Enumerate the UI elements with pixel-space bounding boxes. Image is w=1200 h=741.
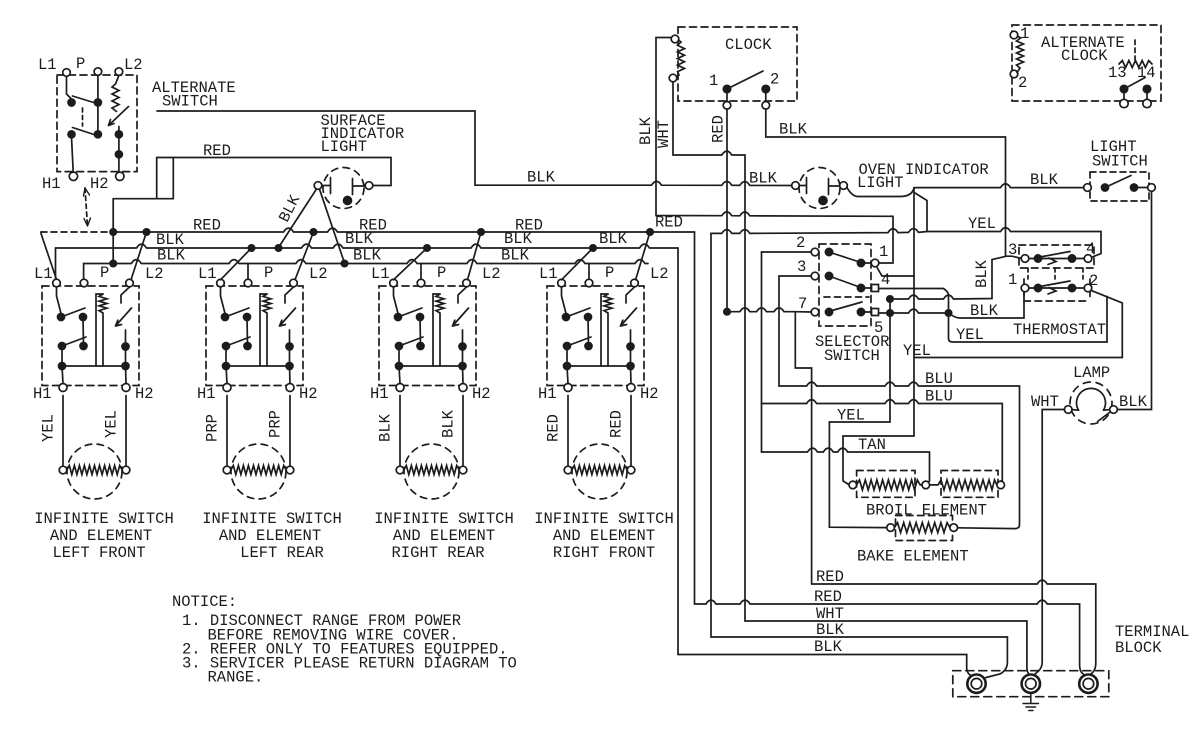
svg-text:RED: RED [814, 588, 842, 606]
svg-text:BLK: BLK [816, 621, 845, 639]
thermostat row 1-2 terminals and dots [1021, 284, 1029, 292]
svg-text:BLOCK: BLOCK [1115, 639, 1162, 657]
bake terminals [887, 524, 895, 532]
wire thermostat pin2 diagonal [914, 290, 1122, 357]
svg-text:RED: RED [608, 410, 626, 438]
svg-text:L2: L2 [124, 56, 143, 74]
lamp filament stub [1098, 413, 1110, 422]
bake zigzag [894, 523, 950, 533]
svg-text:BLK: BLK [599, 230, 628, 248]
dashed arrow below alternate switch [85, 188, 88, 226]
ladder verticals below RED wire [113, 158, 173, 264]
svg-text:RED: RED [193, 217, 221, 235]
alternate switch L2 coil [112, 75, 119, 111]
broil terminals [849, 481, 857, 489]
svg-text:L2: L2 [145, 265, 164, 283]
svg-text:YEL: YEL [968, 215, 996, 233]
svg-text:BLK: BLK [970, 302, 999, 320]
svg-text:BLK: BLK [353, 247, 382, 265]
svg-text:P: P [76, 55, 85, 73]
svg-text:RED: RED [545, 414, 563, 442]
svg-text:CLOCK: CLOCK [1061, 47, 1108, 65]
element 2 (left rear) [223, 396, 294, 500]
svg-text:H2: H2 [90, 175, 109, 193]
svg-text:BLK: BLK [440, 409, 458, 438]
thermostat dashed linkage [1028, 268, 1083, 279]
svg-text:YEL: YEL [103, 410, 121, 438]
light switch terminals [1084, 184, 1092, 192]
svg-text:1: 1 [879, 243, 888, 261]
svg-text:P: P [437, 264, 446, 282]
svg-text:BLK: BLK [527, 169, 556, 187]
wire light switch to lamp BLK [1117, 191, 1151, 409]
wire clock coil top BLK down to selector pin1 [656, 38, 893, 264]
wire H2-area to surface light (RED) [157, 158, 391, 186]
alternate clock contacts 13 14 [1134, 40, 1136, 60]
selector pin terminals [811, 248, 819, 256]
svg-text:BLK: BLK [814, 638, 843, 656]
broil dashed box right [941, 471, 998, 498]
infinite switch 1 (left front) [42, 279, 139, 391]
svg-text:LIGHT: LIGHT [321, 138, 368, 156]
oven light terminals [792, 182, 800, 190]
svg-text:H1: H1 [370, 385, 389, 403]
alternate clock box [1012, 25, 1161, 101]
light switch arm [1105, 176, 1131, 188]
svg-text:H2: H2 [135, 385, 154, 403]
svg-text:H1: H1 [197, 385, 216, 403]
svg-text:L2: L2 [309, 265, 328, 283]
clock coil [671, 35, 679, 43]
svg-text:H1: H1 [42, 175, 61, 193]
selector inner dashed divider [824, 296, 869, 298]
surface light diagonal to BLK bus2 [320, 189, 345, 263]
svg-text:1: 1 [1020, 25, 1029, 43]
clock switch arm [727, 71, 763, 89]
thermostat row 1-2 arm [1040, 281, 1070, 287]
alternate clock coil [1010, 31, 1018, 39]
svg-text:L1: L1 [34, 265, 53, 283]
svg-text:H2: H2 [299, 385, 318, 403]
wire selector pin1 link [877, 267, 915, 277]
svg-text:BLK: BLK [345, 230, 374, 248]
svg-text:YEL: YEL [40, 414, 58, 442]
svg-text:YEL: YEL [837, 407, 865, 425]
wire thermostat pin3 branch (BLK) [890, 256, 1007, 299]
wire YEL node horizontal (top of x711) [711, 229, 927, 234]
surface light diagonal to BLK bus1 [279, 189, 317, 248]
clock pin terminals [723, 102, 731, 110]
svg-text:BLK: BLK [501, 247, 530, 265]
svg-text:WHT: WHT [1031, 393, 1059, 411]
svg-text:BLU: BLU [925, 370, 953, 388]
infinite switch 1 L2 diagonal [131, 232, 147, 280]
wire clock coil bottom WHT [673, 82, 745, 621]
svg-text:2: 2 [770, 71, 779, 89]
svg-text:RED: RED [710, 115, 728, 143]
svg-text:2: 2 [796, 234, 805, 252]
BLK bus2 dots [110, 260, 116, 266]
svg-text:L1: L1 [539, 265, 558, 283]
svg-text:TAN: TAN [858, 436, 886, 454]
BLK bus1 junction dots [248, 245, 254, 251]
alternate switch terminal P [94, 68, 102, 76]
alternate switch terminal L1 [63, 69, 71, 77]
svg-text:RED: RED [816, 568, 844, 586]
svg-text:INFINITE SWITCH: INFINITE SWITCH [534, 510, 674, 528]
selector contact dots [825, 248, 832, 255]
wire selector pin7 riser to RED bus [795, 312, 811, 584]
infinite switch 3 feed diagonals [394, 248, 428, 280]
svg-text:BLK: BLK [637, 116, 655, 145]
wire RED bus1 (selector pin7 node) [812, 580, 1096, 674]
lamp terminals [1064, 406, 1072, 414]
svg-text:1: 1 [1008, 271, 1017, 289]
alternate switch arm 1 [73, 96, 99, 104]
svg-text:13: 13 [1108, 64, 1127, 82]
surface light lamp bars [322, 178, 365, 195]
infinite switch 3 (right rear) [379, 279, 476, 391]
svg-text:BROIL ELEMENT: BROIL ELEMENT [866, 502, 987, 520]
svg-text:LIGHT: LIGHT [857, 174, 904, 192]
svg-text:L1: L1 [38, 56, 57, 74]
svg-text:SWITCH: SWITCH [162, 93, 218, 111]
alternate switch linkage dashes [82, 108, 84, 126]
svg-text:BLK: BLK [749, 170, 778, 188]
wire RED bus2 (L2 bus) [695, 232, 1085, 675]
svg-text:P: P [605, 264, 614, 282]
wire WHT bus [745, 621, 1031, 676]
wire clock pin2 BLK right and down [766, 109, 1006, 256]
svg-text:BLK: BLK [157, 247, 186, 265]
alternate switch H1 column [72, 137, 74, 172]
svg-text:YEL: YEL [956, 326, 984, 344]
terminal block dashed box [953, 671, 1109, 697]
clock box [678, 27, 797, 101]
alternate switch box [57, 75, 137, 172]
wire selector pin3 feed [779, 276, 811, 386]
thermostat row 3-4 arm [1040, 252, 1070, 258]
infinite switch 2 (left rear) [206, 279, 303, 391]
junction dot clock pin1 branch [724, 309, 730, 315]
svg-text:NOTICE:: NOTICE: [172, 593, 237, 611]
terminal block lug right [1079, 675, 1097, 693]
svg-text:P: P [100, 264, 109, 282]
wire L1 trunk top [157, 111, 792, 186]
svg-text:AND ELEMENT: AND ELEMENT [219, 527, 321, 545]
RED bus solid [113, 228, 694, 232]
wire clock pin1 RED down [727, 109, 811, 312]
svg-text:14: 14 [1137, 64, 1156, 82]
svg-text:INFINITE SWITCH: INFINITE SWITCH [202, 510, 342, 528]
BLK bus 2 [84, 260, 648, 279]
svg-text:2: 2 [1018, 74, 1027, 92]
wire thermostat pin3 from tee [1007, 256, 1022, 258]
light switch box [1090, 172, 1149, 201]
node dot x948 [945, 310, 951, 316]
svg-text:RED: RED [203, 142, 231, 160]
thermostat row 3-4 terminals and dots [1021, 255, 1029, 263]
surface indicator light dashed circle [323, 168, 364, 209]
svg-text:L1: L1 [198, 265, 217, 283]
svg-text:BLU: BLU [925, 388, 953, 406]
svg-text:7: 7 [798, 295, 807, 313]
alternate switch L2 column lower [118, 127, 120, 173]
alternate switch terminal L2 [115, 68, 123, 76]
element 1 (left front) [59, 396, 130, 500]
selector arms [829, 252, 860, 262]
selector internal links [829, 252, 872, 312]
svg-text:H1: H1 [33, 385, 52, 403]
svg-text:L1: L1 [371, 265, 390, 283]
wire thermostat pin1 (BLK) [949, 292, 1025, 318]
wire selector pin2 feed [762, 252, 812, 452]
svg-text:WHT: WHT [655, 120, 673, 148]
bake dashed box [896, 516, 953, 541]
svg-text:3: 3 [797, 258, 806, 276]
element 3 (right rear) [396, 396, 467, 500]
svg-text:H1: H1 [538, 385, 557, 403]
wire selector pin4 to thermostat node [879, 289, 1107, 343]
wire BLU2: selector pin2 node to broil right [762, 400, 1003, 481]
surface light terminals [314, 182, 322, 190]
alternate switch contact dots [68, 99, 75, 106]
wire BLK bus2 (bus1 node) [678, 248, 973, 677]
wire oven light output junction [847, 187, 914, 196]
oven light dot [819, 197, 827, 205]
svg-text:BAKE ELEMENT: BAKE ELEMENT [857, 548, 969, 566]
thermostat dashed box row 1-2 [1024, 279, 1090, 301]
pin5 node dots [887, 296, 893, 302]
svg-text:YEL: YEL [903, 342, 931, 360]
svg-text:BLK: BLK [779, 121, 808, 139]
svg-text:LEFT FRONT: LEFT FRONT [52, 544, 145, 562]
alternate switch terminal H1 [69, 172, 77, 180]
svg-text:RIGHT REAR: RIGHT REAR [391, 544, 484, 562]
svg-text:CLOCK: CLOCK [725, 36, 772, 54]
svg-text:BLK: BLK [1030, 171, 1059, 189]
alternate switch L1 internal stub [67, 77, 72, 100]
svg-text:RIGHT FRONT: RIGHT FRONT [553, 544, 655, 562]
wire pin5 node up branch [889, 299, 891, 313]
svg-text:SWITCH: SWITCH [824, 347, 880, 365]
svg-text:BLK: BLK [1119, 393, 1148, 411]
svg-text:AND ELEMENT: AND ELEMENT [50, 527, 152, 545]
wire lamp WHT down to terminal block [1035, 410, 1064, 675]
infinite switch 4 feed diagonals [562, 248, 594, 280]
svg-text:1: 1 [709, 72, 718, 90]
svg-text:LEFT REAR: LEFT REAR [240, 544, 324, 562]
svg-text:4: 4 [881, 271, 890, 289]
element 4 (right front) [564, 396, 635, 500]
wire oven junction down to broil path [843, 188, 914, 485]
broil zigzag right [930, 480, 997, 490]
svg-text:BLK: BLK [377, 413, 395, 442]
svg-text:RANGE.: RANGE. [208, 669, 264, 687]
svg-text:SWITCH: SWITCH [1092, 153, 1148, 171]
wire BLK bus1 (oven light node) [711, 233, 1007, 677]
svg-text:THERMOSTAT: THERMOSTAT [1013, 321, 1106, 339]
alternate switch thermal arm [109, 107, 129, 126]
lamp bulb arc [1077, 388, 1106, 410]
broil zigzag left [857, 480, 922, 490]
svg-text:H2: H2 [472, 385, 491, 403]
surface light dot [344, 197, 352, 205]
svg-text:AND ELEMENT: AND ELEMENT [393, 527, 495, 545]
svg-text:BLK: BLK [504, 230, 533, 248]
svg-text:H2: H2 [640, 385, 659, 403]
oven light dashed circle [799, 168, 840, 209]
svg-text:L2: L2 [482, 265, 501, 283]
wire junction to YEL riser [915, 193, 1101, 258]
wire pin5 node down to YEL elements wire [829, 313, 890, 528]
svg-text:L2: L2 [650, 265, 669, 283]
svg-text:LAMP: LAMP [1073, 364, 1110, 382]
BLK bus 1 [56, 244, 679, 281]
wire selector pin5 to thermostat node [879, 309, 949, 313]
svg-text:INFINITE SWITCH: INFINITE SWITCH [374, 510, 514, 528]
svg-text:BLK: BLK [973, 259, 991, 288]
svg-text:AND ELEMENT: AND ELEMENT [553, 527, 655, 545]
svg-text:INFINITE SWITCH: INFINITE SWITCH [34, 510, 174, 528]
ground symbol [1023, 693, 1039, 711]
infinite switch 4 (right front) [547, 279, 644, 391]
svg-text:PRP: PRP [204, 414, 222, 442]
svg-text:P: P [264, 264, 273, 282]
RED bus junction dots [110, 229, 116, 235]
RED bus dashed left portion with diagonal to L1 [41, 232, 57, 280]
alternate switch P column [97, 75, 99, 134]
terminal block lug middle [1022, 675, 1040, 693]
svg-text:PRP: PRP [267, 410, 285, 438]
wire TAN: pin2 node to broil middle [762, 448, 930, 482]
broil dashed box left [857, 471, 915, 498]
terminal block lug left [967, 675, 985, 693]
oven light lamp bars [799, 178, 839, 195]
alternate switch arm 2 [73, 128, 99, 137]
wire BLK to light switch [914, 184, 1084, 188]
lamp dashed circle [1070, 382, 1112, 424]
selector box [819, 244, 871, 326]
infinite switch 2 feed diagonals [221, 248, 252, 280]
wire BLU1: selector pin3 to bake right [779, 382, 1020, 528]
alternate switch terminal H2 [116, 172, 124, 180]
thermostat dashed box row 3-4 [1019, 245, 1094, 268]
